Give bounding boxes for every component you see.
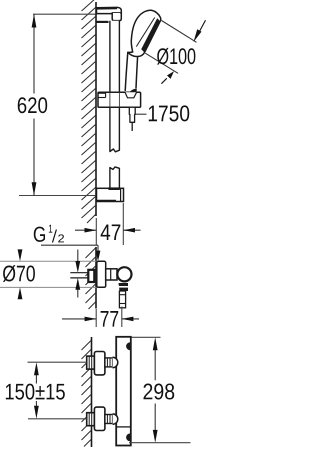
wall line (bottom drawing) (91, 337, 93, 447)
dimension text 150±15 (6, 384, 65, 400)
supply pipe behind wall (70, 273, 88, 278)
dimension Ø70 extension lines (grey) (0, 261, 96, 287)
dimension 150±15 line and arrows (34, 362, 39, 419)
top bracket end knob (112, 13, 121, 21)
dimension Ø70 outer arrows at x=20 (18, 249, 23, 299)
upper union nipple (105, 358, 113, 367)
shower rail tube upper segment (110, 21, 120, 152)
dimension Ø100 arrow lower (161, 71, 174, 84)
dimension text Ø100 (157, 48, 195, 65)
dimension Ø100 arrow upper (194, 20, 206, 42)
lower union nipple (105, 415, 113, 424)
dimension 77 extension lines (96, 307, 122, 328)
lower union escutcheon (94, 407, 105, 430)
dimension Ø100 extension line A (from face top) (162, 21, 197, 43)
hand shower spray face band (142, 19, 160, 52)
dimension 47 extension lines (96, 203, 123, 245)
upper union escutcheon (94, 352, 105, 375)
dimension 620 line and arrows (32, 14, 37, 195)
dimension G1/2 pipe arrows at x=78 (75, 250, 80, 298)
hand shower head (128, 10, 161, 56)
label G 1/2 leader (41, 245, 100, 261)
dimension 47 line and arrows (75, 228, 141, 233)
lower union nut (87, 413, 95, 426)
wall line (top drawing) (95, 2, 97, 216)
mixer escutcheon (side view) (97, 261, 106, 287)
upper union supply line (0, 0, 1, 1)
shower rail tube lower segment (after break) (110, 167, 120, 188)
mixer knob (side view) (117, 267, 131, 281)
dimension text Ø70 (3, 265, 35, 282)
upper union boss (113, 357, 118, 367)
shower holder glider block (98, 92, 141, 107)
bottom wall bracket (97, 187, 124, 201)
mixer outlet nipple (119, 291, 125, 308)
body button lower (126, 434, 130, 442)
dimension text 47 (101, 224, 121, 240)
dimension 150±15 extension lines (28, 362, 87, 419)
lower union supply line (0, 0, 1, 1)
label text 1750 (149, 105, 189, 121)
wall hatching (bottom drawing) (82, 341, 92, 447)
hose connector below holder (129, 107, 135, 122)
dimension Ø100 extension line B (from face bottom) (145, 53, 178, 73)
dimension 298 extension lines (129, 337, 191, 442)
dimension text 298 (143, 384, 174, 400)
pipe union nut behind wall (88, 270, 94, 282)
dimension 77 line and arrows (62, 317, 139, 322)
label G 1/2 text (34, 225, 64, 243)
label 1750 leader (135, 113, 146, 115)
top bracket lower flange (97, 21, 109, 23)
hose end stub (131, 122, 133, 131)
mixer outlet elbow (118, 283, 128, 291)
mixer body (side view) (106, 269, 117, 280)
dimension text 77 (101, 311, 119, 327)
thermostat body (116, 337, 131, 446)
lower union boss (113, 414, 118, 424)
hand shower spray plate rim line (136, 18, 154, 47)
hand shower handle (125, 52, 137, 91)
wall hatching (top drawing) (82, 0, 96, 223)
upper union nut (87, 356, 95, 369)
dimension 298 line and arrows (153, 337, 158, 442)
dimension 620 extension line top (33, 13, 96, 15)
handle end cap in holder (125, 89, 137, 98)
dimension 620 extension line bottom (19, 195, 96, 197)
dimension text 620 (18, 97, 47, 113)
wall line (middle drawing) (95, 247, 97, 309)
body button upper (126, 342, 130, 350)
top wall bracket arm (97, 7, 122, 13)
wall hatching (middle drawing) (86, 248, 96, 309)
